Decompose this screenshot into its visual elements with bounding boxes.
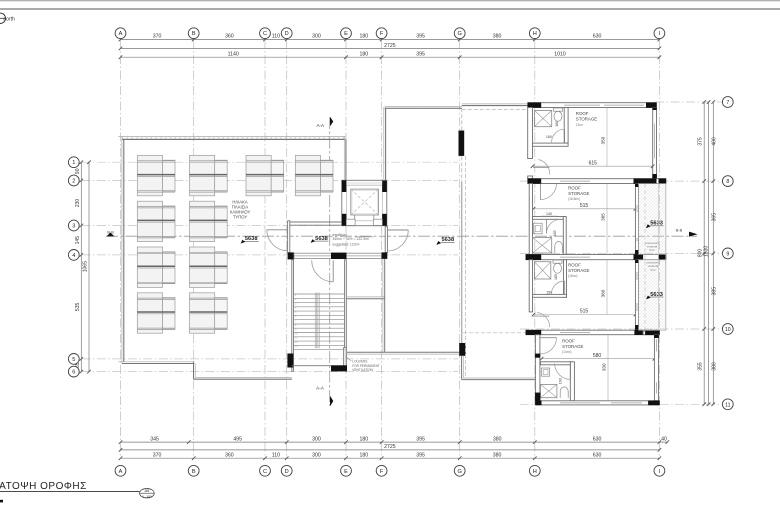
middle deck top edge east of G (higher)	[462, 103, 528, 105]
unit2/3 floor wall	[526, 255, 666, 260]
veranda 1 small text	[645, 241, 659, 252]
svg-text:21m²: 21m²	[576, 123, 583, 127]
unit4 sink	[542, 368, 550, 376]
svg-text:160: 160	[546, 135, 552, 139]
solar panel unit row1 col2	[190, 155, 228, 195]
svg-text:6: 6	[72, 370, 75, 376]
svg-text:180: 180	[555, 121, 559, 127]
middle deck west wall (right of elevator)	[383, 107, 385, 181]
svg-text:B-B: B-B	[676, 229, 683, 233]
grid line D (vertical dash-dot)	[286, 40, 288, 459]
svg-text:STORAGE: STORAGE	[562, 344, 583, 349]
left dimension column line 1	[80, 162, 82, 371]
sheet border top line 1	[0, 0, 780, 2]
unit4 room label	[562, 339, 583, 355]
elevator corner columns (black bars)	[342, 180, 347, 192]
unit3 vertical dim line 360	[606, 260, 608, 315]
veranda inner rail line	[658, 184, 660, 331]
svg-text:9: 9	[726, 251, 729, 257]
dashed roof overhang line under unit3	[463, 332, 529, 334]
grid line I (vertical dash-dot)	[658, 40, 660, 459]
svg-text:F: F	[380, 469, 384, 475]
unit2 shower	[533, 238, 552, 253]
svg-text:110: 110	[272, 453, 280, 459]
grid line G (vertical dash-dot)	[459, 40, 461, 459]
svg-text:STORAGE: STORAGE	[568, 191, 589, 196]
unit4 bathroom top wall	[541, 362, 573, 365]
unit4 bathroom door arc	[554, 362, 556, 364]
svg-text:630: 630	[593, 453, 602, 459]
unit1 left wall lower part	[528, 176, 533, 179]
unit3 bathroom bottom wall	[533, 294, 567, 297]
svg-text:C: C	[263, 469, 267, 475]
grid line 1 (horizontal dash-dot)	[81, 161, 458, 163]
section line B-B (horizontal)	[106, 235, 697, 237]
elevator cab with dashed X	[351, 189, 379, 215]
svg-text:330: 330	[602, 363, 607, 371]
svg-text:H: H	[533, 469, 537, 475]
solar panel unit row2 col1	[137, 201, 175, 241]
svg-text:300: 300	[312, 34, 321, 40]
solar panel unit row1 col3	[246, 155, 284, 195]
veranda 1 hatched (uncovered veranda)	[639, 184, 666, 255]
svg-text:535: 535	[75, 303, 81, 312]
svg-text:G: G	[458, 31, 462, 37]
svg-text:B: B	[192, 469, 196, 475]
lobby left wall	[288, 221, 290, 253]
svg-text:580: 580	[593, 353, 602, 359]
deck edge east of stair - vertical	[382, 259, 384, 352]
unit2 door at top-left	[539, 184, 541, 200]
unit4 dim line 580	[542, 358, 655, 360]
unit3/4 floor wall	[526, 330, 660, 335]
bottom-left edge mark	[0, 500, 3, 503]
svg-text:160: 160	[559, 378, 563, 384]
svg-text:ROOF: ROOF	[562, 339, 575, 344]
left grid bubbles 1-6	[68, 157, 79, 168]
svg-text:180: 180	[359, 453, 368, 459]
svg-text:5m²: 5m²	[650, 248, 655, 252]
solar panel unit row1 col1	[137, 155, 175, 195]
svg-text:395: 395	[416, 52, 425, 58]
unit4 top wall east segment	[643, 331, 659, 335]
svg-text:630: 630	[593, 34, 602, 40]
svg-text:180: 180	[359, 436, 368, 442]
svg-text:355: 355	[697, 362, 703, 371]
grid line 7 (horizontal dash-dot)	[655, 101, 722, 103]
svg-text:1: 1	[72, 160, 75, 166]
grid line E (vertical dash-dot)	[345, 40, 347, 459]
svg-text:(18m²): (18m²)	[568, 274, 577, 278]
svg-text:8: 8	[726, 179, 729, 185]
svg-text:A-A: A-A	[316, 123, 325, 128]
svg-text:G: G	[458, 469, 462, 475]
unit1 room label	[576, 111, 597, 127]
svg-text:400: 400	[712, 137, 718, 146]
unit3 dim line 515	[534, 314, 636, 316]
svg-text:2725: 2725	[384, 444, 396, 450]
svg-text:370: 370	[153, 34, 162, 40]
lobby bottom wall black segment	[331, 253, 347, 259]
svg-text:ROOF: ROOF	[576, 111, 589, 116]
unit4 bottom-left black corner	[535, 393, 540, 405]
svg-text:360: 360	[225, 34, 234, 40]
unit4 door at top-left	[540, 337, 556, 339]
unit4 bathroom right wall	[570, 362, 574, 401]
grid line A (vertical dash-dot)	[120, 40, 122, 459]
right dimension column line 2 (overall 1530)	[708, 102, 710, 404]
svg-text:5m²: 5m²	[651, 268, 656, 272]
scale bubble A5 1:100	[140, 489, 155, 498]
svg-text:370: 370	[153, 453, 162, 459]
stair bottom wall	[292, 365, 347, 367]
svg-text:365: 365	[712, 213, 718, 222]
svg-text:495: 495	[233, 436, 242, 442]
right dimension column line 3	[712, 102, 714, 404]
section line A-A (vertical)	[329, 117, 331, 406]
unit2 room label	[568, 186, 589, 202]
svg-text:H: H	[533, 31, 537, 37]
lobby left wall black base	[288, 252, 294, 259]
svg-text:1 : 100: 1 : 100	[142, 494, 152, 498]
svg-text:380: 380	[493, 453, 502, 459]
svg-text:380: 380	[493, 436, 502, 442]
svg-text:north: north	[3, 17, 15, 23]
svg-text:5: 5	[72, 357, 75, 363]
left dimension column line 2 (overall 1065)	[88, 162, 90, 371]
unit3 bathroom right wall	[564, 260, 567, 298]
stair room right wall	[345, 260, 347, 348]
deck edge below G column - vertical	[461, 356, 463, 380]
svg-text:4: 4	[72, 253, 75, 259]
svg-text:STORAGE: STORAGE	[568, 268, 589, 273]
stair treads	[294, 294, 345, 350]
grid line 2 (horizontal dash-dot)	[81, 180, 458, 182]
svg-text:A5: A5	[144, 488, 150, 493]
grid line 10 (horizontal dash-dot)	[520, 328, 722, 330]
unit3 room label	[568, 263, 589, 279]
elevator bottom door jambs	[346, 219, 355, 225]
dashed roof overhang line (east)	[464, 156, 466, 378]
svg-text:350: 350	[601, 136, 606, 144]
svg-text:395: 395	[416, 34, 425, 40]
svg-text:515: 515	[580, 203, 589, 209]
lobby east door (arc)	[387, 230, 408, 251]
svg-text:A-A: A-A	[316, 385, 325, 390]
deck edge east of stair - top	[346, 296, 384, 298]
left building left edge (double parapet line)	[121, 136, 123, 363]
svg-text:140: 140	[546, 212, 552, 216]
solar panel unit row3 col1	[137, 247, 175, 287]
svg-text:suggested: 122m²: suggested: 122m²	[332, 242, 360, 246]
unit2 bathroom door arc	[546, 219, 548, 233]
veranda dashed track line	[644, 184, 646, 331]
top dimension row 1 line	[121, 39, 660, 41]
svg-text:300: 300	[312, 453, 321, 459]
svg-text:40: 40	[661, 436, 667, 442]
unit4 left wall	[535, 335, 540, 401]
unit1 dim line 615	[533, 165, 653, 167]
svg-text:E: E	[344, 469, 348, 475]
grid line 8 (horizontal dash-dot)	[520, 180, 722, 182]
veranda outer edge line	[665, 184, 667, 331]
svg-text:345: 345	[150, 436, 159, 442]
svg-text:180: 180	[359, 34, 368, 40]
left building bottom edge east part	[194, 378, 292, 380]
grid line 3 (horizontal dash-dot)	[81, 225, 458, 227]
unit1 toilet	[554, 108, 563, 111]
label solar panels text	[230, 199, 251, 219]
unit3 toilet	[553, 260, 562, 263]
section marker B-B left	[106, 233, 114, 237]
grid line 4 (horizontal dash-dot)	[81, 254, 458, 256]
bottom dimension row 2 line (overall 2725)	[121, 449, 660, 451]
wall stub on grid G (black bar)	[459, 131, 465, 156]
svg-text:515: 515	[580, 309, 589, 315]
middle deck top edge west of G	[385, 106, 462, 108]
veranda 2 small text	[646, 261, 660, 272]
grid line 5 (horizontal dash-dot)	[81, 358, 458, 360]
svg-text:395: 395	[416, 436, 425, 442]
unit2 bathroom top wall	[533, 217, 566, 220]
grid line F (vertical dash-dot)	[381, 40, 383, 459]
svg-text:ΚΑΤΟΨΗ ΟΡΟΦΗΣ: ΚΑΤΟΨΗ ΟΡΟΦΗΣ	[0, 481, 87, 492]
unit1 bathroom wall vertical	[564, 108, 568, 144]
left building top edge (double parapet line)	[118, 135, 345, 137]
grid line 6 (horizontal dash-dot)	[81, 371, 458, 373]
svg-text:A: A	[119, 31, 123, 37]
section marker A-A bottom	[330, 396, 333, 407]
sheet border top line 2	[0, 8, 780, 10]
elevator-lobby top wall joints	[290, 221, 342, 223]
bottom grid bubbles A-I	[115, 465, 126, 476]
stair center rails	[314, 293, 316, 349]
svg-text:800: 800	[697, 249, 703, 258]
svg-text:D: D	[285, 469, 289, 475]
unit3 left wall	[529, 260, 532, 312]
right grid bubbles 7-11	[722, 97, 733, 108]
svg-text:2725: 2725	[384, 43, 396, 49]
stair door (arc) from lobby	[332, 260, 334, 282]
unit4 bottom wall	[535, 401, 659, 405]
deck bottom edge to G column	[347, 351, 459, 353]
area calculation text block	[332, 233, 369, 247]
unit1/unit2 floor wall	[528, 179, 666, 184]
unit3 shower	[534, 262, 550, 279]
svg-text:3: 3	[72, 224, 75, 230]
unit4 vertical dim line 330	[607, 335, 609, 401]
right building top wall (unit1)	[528, 103, 657, 108]
svg-text:395: 395	[416, 453, 425, 459]
svg-text:ΤΥΠΟΥ: ΤΥΠΟΥ	[233, 214, 247, 219]
unit1 shower (square with X)	[534, 110, 551, 126]
top dimension row 3 line	[121, 56, 660, 58]
svg-text:185: 185	[554, 274, 558, 280]
stair tread numbers	[295, 294, 298, 348]
svg-text:300: 300	[312, 436, 321, 442]
svg-text:7: 7	[726, 100, 729, 106]
svg-text:380: 380	[493, 34, 502, 40]
svg-text:10: 10	[725, 327, 731, 333]
svg-text:B: B	[192, 31, 196, 37]
dashed overhang line under top edge east of G	[462, 108, 528, 110]
solar panel unit row1 col4	[295, 155, 333, 195]
svg-text:2: 2	[72, 179, 75, 185]
grid line H (vertical dash-dot)	[534, 40, 536, 459]
svg-text:11: 11	[725, 402, 730, 408]
solar panel unit row2 col2	[190, 201, 228, 241]
unit1 left wall	[528, 108, 533, 159]
svg-text:1065: 1065	[83, 261, 89, 272]
svg-text:185: 185	[553, 231, 557, 237]
solar panel unit row4 col1	[137, 293, 175, 333]
svg-text:E: E	[344, 31, 348, 37]
svg-text:ROOF: ROOF	[568, 186, 581, 191]
unit2 right wall	[635, 184, 638, 255]
svg-text:1010: 1010	[554, 52, 566, 58]
bottom dimension row 1 line	[121, 441, 668, 443]
svg-text:F: F	[380, 31, 384, 37]
column at grid G (black)	[459, 343, 465, 356]
lobby west door (arc)	[267, 230, 288, 251]
lobby right wall black base	[381, 252, 387, 259]
svg-text:1140: 1140	[228, 52, 239, 58]
lobby right wall	[385, 227, 387, 253]
left building right edge wall to elevator	[343, 136, 345, 181]
svg-text:(14m²): (14m²)	[562, 350, 571, 354]
stair bottom black base	[331, 365, 347, 371]
svg-text:VENTILATION: VENTILATION	[352, 368, 373, 372]
louvers annotation text	[352, 360, 380, 372]
svg-text:110: 110	[272, 34, 280, 40]
right dimension column line 1	[703, 102, 705, 404]
svg-text:C: C	[263, 31, 267, 37]
svg-text:ROOF: ROOF	[568, 263, 581, 268]
deck bottom edge under unit 4	[462, 379, 536, 381]
section marker A-A top	[330, 117, 333, 127]
svg-text:145: 145	[75, 236, 81, 245]
unit4 toilet (arch)	[560, 387, 568, 398]
svg-text:385: 385	[712, 287, 718, 296]
svg-text:360: 360	[225, 453, 234, 459]
unit1 vertical dim line 350	[606, 108, 608, 166]
svg-text:D: D	[285, 31, 289, 37]
unit1 bathroom wall horizontal	[533, 143, 569, 146]
unit2 vertical dim line 365	[606, 184, 608, 254]
unit1 door in left wall	[533, 166, 550, 168]
elevator cab door opening	[354, 215, 356, 219]
svg-text:180: 180	[359, 52, 368, 58]
unit3 right wall	[635, 260, 638, 331]
svg-text:360: 360	[601, 289, 606, 297]
solar panel unit row4 col2	[190, 293, 228, 333]
elevator top wall inner band	[347, 182, 382, 185]
svg-text:(18.8m²): (18.8m²)	[568, 197, 580, 201]
unit2 sink	[534, 223, 543, 234]
svg-text:90: 90	[75, 168, 81, 174]
stair room left wall	[292, 260, 294, 372]
unit2 left wall	[529, 184, 532, 255]
svg-text:STORAGE: STORAGE	[576, 117, 597, 122]
svg-text:365: 365	[601, 213, 606, 221]
svg-text:375: 375	[697, 137, 703, 146]
stair left wall black base	[287, 354, 293, 368]
left building bottom edge west part	[118, 361, 194, 363]
grid line C (vertical dash-dot)	[264, 40, 266, 459]
top dimension row 2 line (overall 2725)	[121, 47, 660, 49]
svg-text:1530: 1530	[704, 246, 710, 257]
dashed roof line at grid G	[461, 108, 463, 182]
left building bottom step	[193, 362, 195, 379]
svg-text:A: A	[119, 469, 123, 475]
unit2 toilet (arch)	[555, 241, 563, 253]
svg-text:380: 380	[712, 362, 718, 371]
unit1 right wall	[653, 108, 657, 179]
unit2 dim line 515	[534, 208, 636, 210]
lobby bottom wall band with windows	[294, 253, 381, 258]
solar panel unit row3 col2	[190, 247, 228, 287]
unit4 shower	[541, 384, 557, 397]
unit3 bathroom door arc	[551, 281, 564, 294]
elevator shaft U1 outer walls	[342, 180, 387, 225]
svg-text:330m² + 32% = 122.3m²: 330m² + 32% = 122.3m²	[332, 237, 369, 241]
title underline	[0, 490, 140, 492]
section marker B-B right	[689, 232, 698, 237]
veranda 2 hatched (uncovered veranda)	[639, 260, 666, 331]
svg-text:615: 615	[589, 161, 598, 167]
north symbol	[0, 13, 15, 23]
unit3 door at bottom-left	[532, 315, 549, 317]
unit4 right wall	[654, 335, 658, 401]
svg-text:αποθήκες:: αποθήκες:	[332, 233, 348, 237]
grid line 9 (horizontal dash-dot)	[520, 252, 722, 254]
stair louver wall detail	[344, 348, 347, 366]
top grid bubbles A-I	[115, 28, 126, 39]
bottom dimension row 3 line	[121, 457, 660, 459]
svg-text:230: 230	[75, 199, 81, 208]
unit2 bathroom right wall	[563, 217, 566, 255]
svg-text:B-B: B-B	[107, 230, 114, 234]
svg-text:630: 630	[593, 436, 602, 442]
grid line 11 (horizontal dash-dot)	[520, 403, 722, 405]
unit1 bathroom door arc	[552, 129, 565, 142]
grid line B (vertical dash-dot)	[193, 40, 195, 459]
